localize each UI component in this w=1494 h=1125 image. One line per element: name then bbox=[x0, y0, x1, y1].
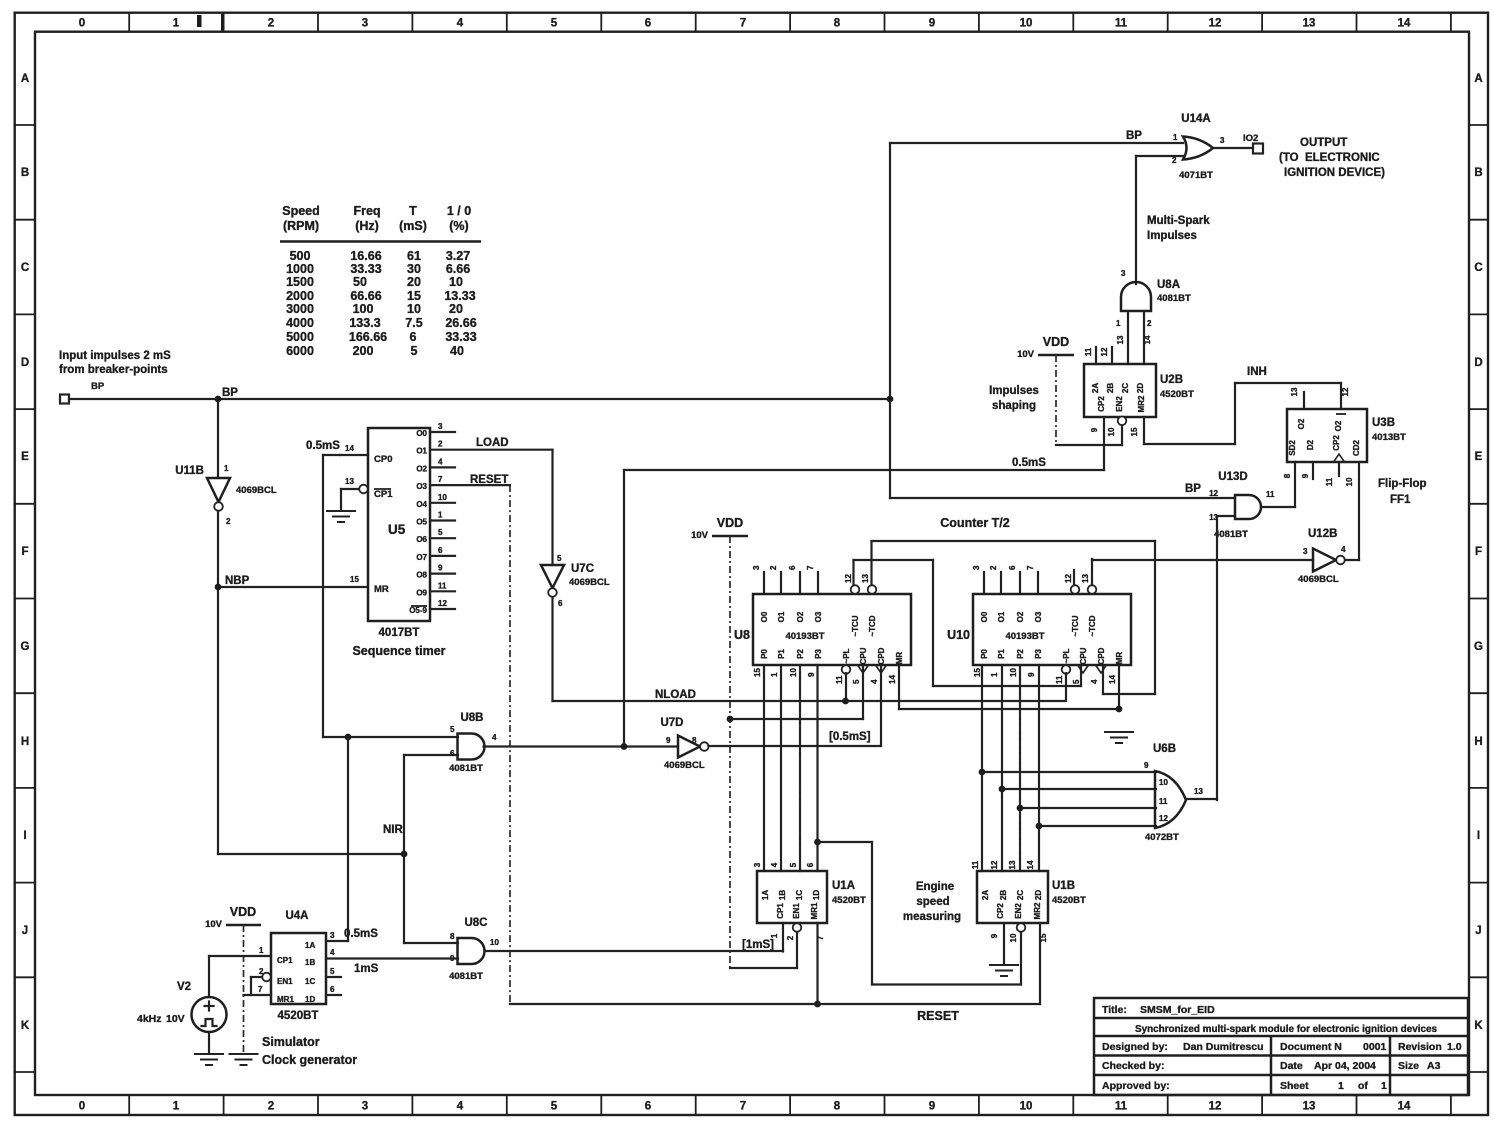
svg-text:CP2: CP2 bbox=[996, 903, 1005, 919]
svg-text:5: 5 bbox=[450, 725, 455, 734]
svg-text:0.5mS: 0.5mS bbox=[306, 440, 340, 452]
svg-text:5: 5 bbox=[1072, 679, 1081, 684]
svg-text:10: 10 bbox=[1159, 778, 1168, 787]
svg-text:B: B bbox=[21, 167, 29, 179]
svg-text:3: 3 bbox=[972, 565, 981, 570]
svg-text:O2: O2 bbox=[1334, 420, 1343, 431]
svg-text:P2: P2 bbox=[1016, 649, 1025, 659]
svg-text:5: 5 bbox=[852, 679, 861, 684]
svg-text:U11B: U11B bbox=[175, 465, 204, 477]
svg-text:166.66: 166.66 bbox=[349, 330, 387, 344]
svg-text:~TCD: ~TCD bbox=[1088, 615, 1097, 636]
svg-text:(RPM): (RPM) bbox=[283, 219, 319, 233]
svg-text:shaping: shaping bbox=[992, 400, 1036, 412]
svg-text:(Hz): (Hz) bbox=[355, 219, 379, 233]
svg-text:Approved by:: Approved by: bbox=[1102, 1080, 1170, 1092]
svg-text:VDD: VDD bbox=[717, 516, 743, 530]
svg-text:U8A: U8A bbox=[1157, 279, 1180, 291]
svg-text:Synchronized multi-spark modul: Synchronized multi-spark module for elec… bbox=[1135, 1024, 1437, 1035]
svg-text:Freq: Freq bbox=[353, 204, 380, 218]
svg-text:U13D: U13D bbox=[1218, 471, 1247, 483]
svg-text:1D: 1D bbox=[305, 995, 315, 1004]
svg-text:4520BT: 4520BT bbox=[1160, 389, 1194, 400]
svg-text:U5: U5 bbox=[388, 522, 406, 537]
svg-text:1: 1 bbox=[1338, 1080, 1344, 1092]
svg-text:9: 9 bbox=[990, 933, 999, 938]
svg-text:1: 1 bbox=[1381, 1080, 1387, 1092]
svg-text:Speed: Speed bbox=[282, 204, 320, 218]
svg-text:CPU: CPU bbox=[859, 647, 868, 664]
svg-text:12: 12 bbox=[438, 599, 447, 608]
svg-text:P2: P2 bbox=[796, 649, 805, 659]
svg-text:CD2: CD2 bbox=[1352, 439, 1361, 456]
svg-text:7: 7 bbox=[258, 985, 263, 994]
svg-text:MR1: MR1 bbox=[277, 995, 294, 1004]
svg-text:INH: INH bbox=[1247, 366, 1267, 378]
svg-text:CP1: CP1 bbox=[776, 903, 785, 919]
svg-text:10: 10 bbox=[1009, 933, 1018, 942]
svg-text:33.33: 33.33 bbox=[350, 262, 381, 276]
svg-text:2: 2 bbox=[268, 1101, 274, 1113]
svg-text:speed: speed bbox=[916, 896, 949, 908]
svg-text:Sequence timer: Sequence timer bbox=[352, 644, 445, 658]
svg-text:measuring: measuring bbox=[903, 911, 961, 923]
svg-text:7.5: 7.5 bbox=[405, 316, 422, 330]
svg-text:P1: P1 bbox=[997, 649, 1006, 659]
svg-text:8: 8 bbox=[834, 18, 841, 30]
svg-text:6: 6 bbox=[438, 546, 443, 555]
svg-text:2: 2 bbox=[769, 565, 778, 570]
svg-text:Input impulses 2 mS: Input impulses 2 mS bbox=[59, 350, 171, 362]
svg-text:1D: 1D bbox=[812, 890, 821, 900]
svg-text:3: 3 bbox=[362, 18, 368, 30]
svg-text:CP2: CP2 bbox=[1332, 435, 1341, 451]
svg-text:6000: 6000 bbox=[286, 344, 314, 358]
svg-text:CP0: CP0 bbox=[374, 454, 392, 465]
svg-text:11: 11 bbox=[971, 860, 980, 869]
svg-text:5000: 5000 bbox=[286, 330, 314, 344]
svg-text:1: 1 bbox=[770, 672, 779, 677]
svg-text:14: 14 bbox=[1398, 18, 1411, 30]
svg-text:O0: O0 bbox=[760, 611, 769, 622]
svg-text:4: 4 bbox=[457, 18, 464, 30]
svg-text:O5-9: O5-9 bbox=[409, 606, 427, 615]
svg-text:4kHz: 4kHz bbox=[137, 1013, 162, 1025]
svg-text:11: 11 bbox=[1159, 797, 1168, 806]
svg-text:H: H bbox=[21, 736, 29, 748]
svg-text:U1B: U1B bbox=[1052, 880, 1075, 892]
svg-text:2D: 2D bbox=[1136, 383, 1145, 393]
svg-text:E: E bbox=[1475, 451, 1483, 463]
svg-text:3: 3 bbox=[753, 862, 762, 867]
svg-text:O8: O8 bbox=[416, 571, 427, 580]
svg-text:10V: 10V bbox=[691, 530, 709, 541]
svg-text:(%): (%) bbox=[449, 219, 468, 233]
svg-text:Revision: Revision bbox=[1398, 1041, 1442, 1053]
svg-text:A3: A3 bbox=[1427, 1060, 1441, 1072]
svg-text:6: 6 bbox=[788, 565, 797, 570]
svg-text:8: 8 bbox=[450, 932, 455, 941]
svg-text:12: 12 bbox=[990, 860, 999, 869]
svg-text:7: 7 bbox=[740, 18, 746, 30]
svg-text:500: 500 bbox=[290, 249, 311, 263]
svg-text:2A: 2A bbox=[981, 890, 990, 900]
svg-text:0: 0 bbox=[79, 1101, 85, 1113]
svg-text:U14A: U14A bbox=[1181, 113, 1210, 125]
svg-text:BP: BP bbox=[1126, 130, 1142, 142]
svg-text:P3: P3 bbox=[814, 649, 823, 659]
svg-text:1B: 1B bbox=[778, 890, 787, 900]
svg-text:13.33: 13.33 bbox=[444, 289, 475, 303]
svg-text:0.5mS: 0.5mS bbox=[344, 928, 378, 940]
svg-text:9: 9 bbox=[1144, 761, 1149, 770]
svg-text:CP1: CP1 bbox=[374, 489, 393, 500]
svg-text:VDD: VDD bbox=[230, 905, 256, 919]
svg-text:1mS: 1mS bbox=[354, 963, 379, 975]
svg-text:4081BT: 4081BT bbox=[449, 763, 483, 774]
svg-text:9: 9 bbox=[1090, 427, 1099, 432]
svg-text:A: A bbox=[21, 73, 29, 85]
svg-text:11: 11 bbox=[1325, 477, 1334, 486]
svg-text:10: 10 bbox=[1107, 427, 1116, 436]
svg-text:26.66: 26.66 bbox=[445, 316, 476, 330]
svg-text:J: J bbox=[22, 925, 28, 937]
svg-text:4081BT: 4081BT bbox=[1214, 529, 1248, 540]
svg-text:FF1: FF1 bbox=[1390, 494, 1411, 506]
svg-text:O1: O1 bbox=[777, 611, 786, 622]
svg-text:U8B: U8B bbox=[460, 712, 483, 724]
svg-text:O3: O3 bbox=[416, 482, 427, 491]
svg-text:G: G bbox=[21, 641, 30, 653]
svg-text:C: C bbox=[1474, 262, 1482, 274]
svg-text:CPD: CPD bbox=[877, 647, 886, 664]
svg-text:1: 1 bbox=[259, 946, 264, 955]
svg-text:O2: O2 bbox=[796, 611, 805, 622]
svg-text:4: 4 bbox=[770, 862, 779, 867]
svg-text:2B: 2B bbox=[1106, 383, 1115, 393]
svg-text:15: 15 bbox=[1130, 427, 1139, 436]
svg-text:3: 3 bbox=[1121, 269, 1126, 278]
svg-text:1B: 1B bbox=[305, 958, 315, 967]
svg-text:1C: 1C bbox=[795, 890, 804, 900]
svg-text:1.0: 1.0 bbox=[1447, 1041, 1462, 1053]
svg-text:10: 10 bbox=[1345, 477, 1354, 486]
svg-text:Date: Date bbox=[1280, 1060, 1303, 1072]
svg-text:VDD: VDD bbox=[1043, 335, 1069, 349]
svg-text:from breaker-points: from breaker-points bbox=[59, 364, 168, 376]
svg-text:5: 5 bbox=[557, 554, 562, 563]
svg-text:6: 6 bbox=[806, 862, 815, 867]
svg-text:9: 9 bbox=[929, 18, 935, 30]
svg-text:Apr 04, 2004: Apr 04, 2004 bbox=[1314, 1060, 1376, 1072]
svg-text:U7D: U7D bbox=[660, 717, 683, 729]
svg-text:Size: Size bbox=[1398, 1060, 1419, 1072]
svg-text:2: 2 bbox=[989, 565, 998, 570]
svg-text:P0: P0 bbox=[980, 649, 989, 659]
svg-text:3: 3 bbox=[438, 422, 443, 431]
svg-text:11: 11 bbox=[1084, 347, 1093, 356]
svg-text:LOAD: LOAD bbox=[476, 437, 509, 449]
svg-text:12: 12 bbox=[1100, 347, 1109, 356]
svg-text:4: 4 bbox=[330, 948, 335, 957]
svg-text:O9: O9 bbox=[416, 588, 427, 597]
svg-text:3: 3 bbox=[330, 931, 335, 940]
svg-text:4520BT: 4520BT bbox=[278, 1010, 319, 1022]
svg-text:3.27: 3.27 bbox=[446, 249, 470, 263]
svg-text:11: 11 bbox=[1055, 675, 1064, 684]
svg-text:11: 11 bbox=[1115, 1101, 1128, 1113]
svg-text:4: 4 bbox=[457, 1101, 464, 1113]
svg-text:2: 2 bbox=[226, 517, 231, 526]
svg-text:10: 10 bbox=[1020, 18, 1033, 30]
svg-text:I: I bbox=[1477, 830, 1480, 842]
svg-text:~TCU: ~TCU bbox=[1071, 615, 1080, 636]
svg-text:MR2: MR2 bbox=[1033, 902, 1042, 919]
svg-text:133.3: 133.3 bbox=[349, 316, 380, 330]
svg-text:U6B: U6B bbox=[1153, 743, 1176, 755]
svg-text:13: 13 bbox=[861, 574, 870, 583]
svg-text:Clock generator: Clock generator bbox=[262, 1053, 357, 1067]
svg-text:Multi-Spark: Multi-Spark bbox=[1147, 215, 1210, 227]
svg-text:4: 4 bbox=[1341, 545, 1346, 554]
svg-text:14: 14 bbox=[1398, 1101, 1411, 1113]
svg-text:15: 15 bbox=[753, 668, 762, 677]
svg-text:10: 10 bbox=[449, 275, 463, 289]
svg-text:10: 10 bbox=[789, 668, 798, 677]
svg-text:14: 14 bbox=[345, 444, 354, 453]
svg-text:15: 15 bbox=[973, 668, 982, 677]
svg-text:U2B: U2B bbox=[1160, 374, 1183, 386]
svg-text:2C: 2C bbox=[1121, 383, 1130, 393]
svg-text:Title:: Title: bbox=[1102, 1004, 1127, 1016]
svg-text:CP2: CP2 bbox=[1097, 396, 1106, 412]
svg-text:V2: V2 bbox=[177, 981, 191, 993]
svg-text:14: 14 bbox=[1026, 860, 1035, 869]
svg-text:10V: 10V bbox=[205, 919, 223, 930]
svg-text:Engine: Engine bbox=[916, 881, 954, 893]
svg-text:O5: O5 bbox=[416, 518, 427, 527]
svg-text:8: 8 bbox=[1283, 473, 1292, 478]
svg-text:13: 13 bbox=[1008, 860, 1017, 869]
svg-text:NLOAD: NLOAD bbox=[655, 689, 696, 701]
svg-text:3: 3 bbox=[752, 565, 761, 570]
svg-text:Impulses: Impulses bbox=[1147, 230, 1197, 242]
svg-text:20: 20 bbox=[407, 275, 421, 289]
svg-text:8: 8 bbox=[834, 1101, 841, 1113]
svg-text:U8C: U8C bbox=[464, 917, 487, 929]
svg-text:Sheet: Sheet bbox=[1280, 1080, 1309, 1092]
svg-text:U4A: U4A bbox=[285, 910, 308, 922]
svg-text:~TCD: ~TCD bbox=[868, 615, 877, 636]
svg-text:3000: 3000 bbox=[286, 302, 314, 316]
svg-text:6: 6 bbox=[410, 330, 417, 344]
svg-text:1000: 1000 bbox=[286, 262, 314, 276]
svg-text:11: 11 bbox=[1266, 490, 1275, 499]
svg-text:1: 1 bbox=[224, 464, 229, 473]
svg-text:4069BCL: 4069BCL bbox=[236, 485, 277, 496]
svg-text:2D: 2D bbox=[1034, 890, 1043, 900]
svg-text:EN2: EN2 bbox=[1115, 396, 1124, 412]
svg-text:11: 11 bbox=[1115, 18, 1128, 30]
svg-text:10: 10 bbox=[438, 493, 447, 502]
svg-text:U7C: U7C bbox=[571, 563, 594, 575]
svg-text:P3: P3 bbox=[1034, 649, 1043, 659]
svg-text:1: 1 bbox=[1173, 133, 1178, 142]
svg-text:T: T bbox=[409, 204, 417, 218]
svg-text:40193BT: 40193BT bbox=[1005, 631, 1044, 642]
svg-text:2C: 2C bbox=[1016, 890, 1025, 900]
svg-text:13: 13 bbox=[1303, 18, 1316, 30]
svg-text:O2: O2 bbox=[1297, 418, 1306, 429]
svg-text:MR1: MR1 bbox=[810, 902, 819, 919]
svg-text:12: 12 bbox=[844, 574, 853, 583]
svg-text:1: 1 bbox=[990, 672, 999, 677]
svg-text:K: K bbox=[21, 1020, 30, 1032]
svg-text:NIR: NIR bbox=[383, 824, 404, 836]
svg-text:EN2: EN2 bbox=[1014, 903, 1023, 919]
svg-text:(TO ELECTRONIC: (TO ELECTRONIC bbox=[1279, 152, 1380, 164]
svg-text:O4: O4 bbox=[416, 500, 427, 509]
svg-text:6: 6 bbox=[450, 749, 455, 758]
svg-text:13: 13 bbox=[1194, 787, 1203, 796]
svg-text:12: 12 bbox=[1209, 18, 1222, 30]
svg-text:14: 14 bbox=[1108, 675, 1117, 684]
svg-text:20: 20 bbox=[449, 302, 463, 316]
svg-text:O3: O3 bbox=[1034, 611, 1043, 622]
svg-text:4081BT: 4081BT bbox=[1157, 293, 1191, 304]
svg-text:U10: U10 bbox=[947, 628, 970, 642]
svg-text:9: 9 bbox=[666, 736, 671, 745]
svg-text:6.66: 6.66 bbox=[446, 262, 470, 276]
svg-text:2: 2 bbox=[786, 935, 795, 940]
svg-text:6: 6 bbox=[645, 18, 651, 30]
svg-text:O0: O0 bbox=[980, 611, 989, 622]
svg-text:EN1: EN1 bbox=[277, 977, 293, 986]
svg-text:Document N: Document N bbox=[1280, 1041, 1342, 1053]
svg-text:O2: O2 bbox=[416, 464, 427, 473]
svg-text:3: 3 bbox=[1303, 547, 1308, 556]
svg-text:40193BT: 40193BT bbox=[785, 631, 824, 642]
svg-text:RESET: RESET bbox=[917, 1009, 959, 1023]
svg-text:5: 5 bbox=[411, 344, 418, 358]
svg-text:11: 11 bbox=[438, 581, 447, 590]
svg-text:4017BT: 4017BT bbox=[379, 627, 420, 639]
svg-text:1: 1 bbox=[1116, 319, 1121, 328]
svg-text:61: 61 bbox=[407, 249, 421, 263]
svg-text:2: 2 bbox=[1172, 156, 1177, 165]
svg-text:33.33: 33.33 bbox=[445, 330, 476, 344]
svg-text:SMSM_for_EID: SMSM_for_EID bbox=[1140, 1004, 1215, 1016]
svg-text:D: D bbox=[1474, 357, 1482, 369]
svg-text:100: 100 bbox=[353, 302, 374, 316]
svg-text:7: 7 bbox=[806, 565, 815, 570]
svg-text:1: 1 bbox=[770, 933, 779, 938]
svg-text:7: 7 bbox=[1026, 565, 1035, 570]
svg-text:of: of bbox=[1358, 1080, 1368, 1092]
svg-text:4520BT: 4520BT bbox=[832, 895, 866, 906]
svg-text:4072BT: 4072BT bbox=[1145, 832, 1179, 843]
svg-text:1: 1 bbox=[173, 18, 180, 30]
svg-text:9: 9 bbox=[1301, 473, 1310, 478]
svg-text:1A: 1A bbox=[761, 890, 770, 900]
svg-text:30: 30 bbox=[407, 262, 421, 276]
svg-text:9: 9 bbox=[807, 672, 816, 677]
svg-text:10: 10 bbox=[1009, 668, 1018, 677]
svg-text:Dan Dumitrescu: Dan Dumitrescu bbox=[1183, 1041, 1264, 1053]
svg-text:15: 15 bbox=[350, 575, 359, 584]
svg-text:O6: O6 bbox=[416, 535, 427, 544]
svg-text:2: 2 bbox=[1147, 319, 1152, 328]
svg-text:2000: 2000 bbox=[286, 289, 314, 303]
svg-text:9: 9 bbox=[438, 564, 443, 573]
svg-text:9: 9 bbox=[929, 1101, 935, 1113]
svg-text:IO2: IO2 bbox=[1243, 133, 1258, 144]
svg-text:1: 1 bbox=[173, 1101, 180, 1113]
svg-text:1 / 0: 1 / 0 bbox=[447, 204, 471, 218]
svg-text:O1: O1 bbox=[997, 611, 1006, 622]
svg-text:4071BT: 4071BT bbox=[1179, 170, 1213, 181]
svg-text:50: 50 bbox=[353, 275, 367, 289]
svg-text:D: D bbox=[21, 357, 29, 369]
svg-text:4069BCL: 4069BCL bbox=[664, 760, 705, 771]
svg-text:CPD: CPD bbox=[1097, 647, 1106, 664]
svg-text:4069BCL: 4069BCL bbox=[569, 577, 610, 588]
svg-text:IGNITION DEVICE): IGNITION DEVICE) bbox=[1284, 167, 1385, 179]
svg-text:40: 40 bbox=[450, 344, 464, 358]
svg-text:U8: U8 bbox=[734, 628, 750, 642]
svg-text:OUTPUT: OUTPUT bbox=[1300, 137, 1347, 149]
svg-text:4000: 4000 bbox=[286, 316, 314, 330]
svg-text:13: 13 bbox=[345, 477, 354, 486]
svg-text:G: G bbox=[1474, 641, 1483, 653]
svg-text:J: J bbox=[1475, 925, 1481, 937]
svg-text:~TCU: ~TCU bbox=[851, 615, 860, 636]
svg-text:O3: O3 bbox=[814, 611, 823, 622]
svg-text:2A: 2A bbox=[1091, 383, 1100, 393]
svg-text:Flip-Flop: Flip-Flop bbox=[1378, 478, 1427, 490]
svg-text:3: 3 bbox=[362, 1101, 368, 1113]
svg-text:P1: P1 bbox=[777, 649, 786, 659]
svg-text:15: 15 bbox=[407, 289, 421, 303]
svg-text:Checked by:: Checked by: bbox=[1102, 1060, 1164, 1072]
svg-text:9: 9 bbox=[1027, 672, 1036, 677]
svg-text:MR: MR bbox=[895, 652, 904, 665]
svg-text:O0: O0 bbox=[416, 429, 427, 438]
svg-text:6: 6 bbox=[1008, 565, 1017, 570]
svg-text:7: 7 bbox=[438, 475, 443, 484]
svg-text:13: 13 bbox=[1081, 574, 1090, 583]
svg-text:14: 14 bbox=[1143, 335, 1152, 344]
svg-text:1: 1 bbox=[438, 511, 443, 520]
svg-text:0001: 0001 bbox=[1363, 1041, 1387, 1053]
svg-text:13: 13 bbox=[1116, 335, 1125, 344]
svg-text:2: 2 bbox=[438, 440, 443, 449]
svg-text:U12B: U12B bbox=[1308, 528, 1337, 540]
svg-text:CP1: CP1 bbox=[277, 956, 293, 965]
svg-text:5: 5 bbox=[551, 1101, 558, 1113]
svg-text:1500: 1500 bbox=[286, 275, 314, 289]
svg-text:4: 4 bbox=[1090, 679, 1099, 684]
svg-text:5: 5 bbox=[551, 18, 558, 30]
svg-text:E: E bbox=[21, 451, 29, 463]
svg-text:C: C bbox=[21, 262, 29, 274]
svg-text:12: 12 bbox=[1209, 1101, 1222, 1113]
svg-text:0.5mS: 0.5mS bbox=[1012, 457, 1046, 469]
svg-text:10: 10 bbox=[407, 302, 421, 316]
svg-text:4: 4 bbox=[438, 457, 443, 466]
svg-text:BP: BP bbox=[1185, 483, 1201, 495]
svg-text:12: 12 bbox=[1209, 489, 1218, 498]
